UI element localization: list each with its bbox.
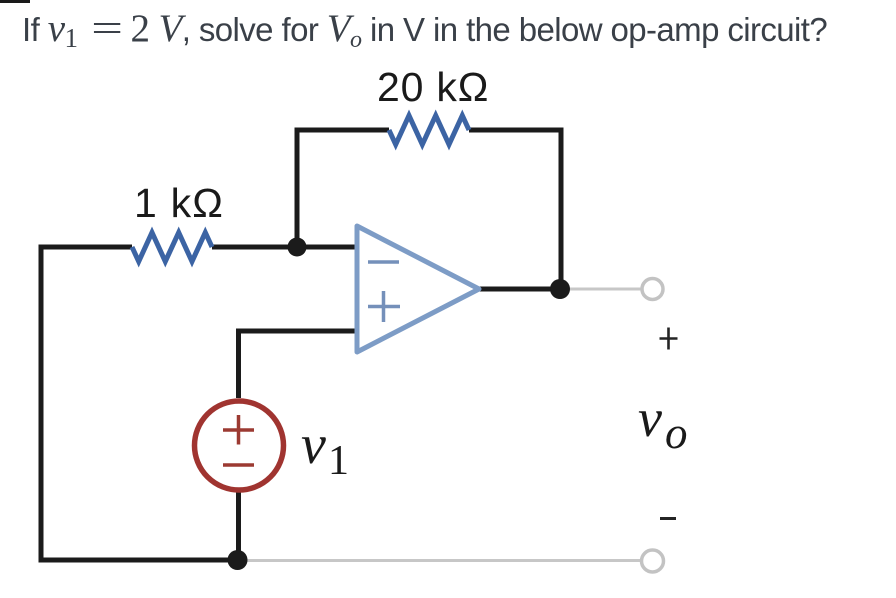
svg-text:v: v	[638, 388, 662, 448]
svg-text:o: o	[665, 408, 688, 458]
svg-text:v: v	[301, 414, 326, 476]
svg-text:1 kΩ: 1 kΩ	[134, 180, 224, 226]
svg-text:1: 1	[328, 438, 349, 484]
svg-text:20 kΩ: 20 kΩ	[377, 64, 489, 110]
